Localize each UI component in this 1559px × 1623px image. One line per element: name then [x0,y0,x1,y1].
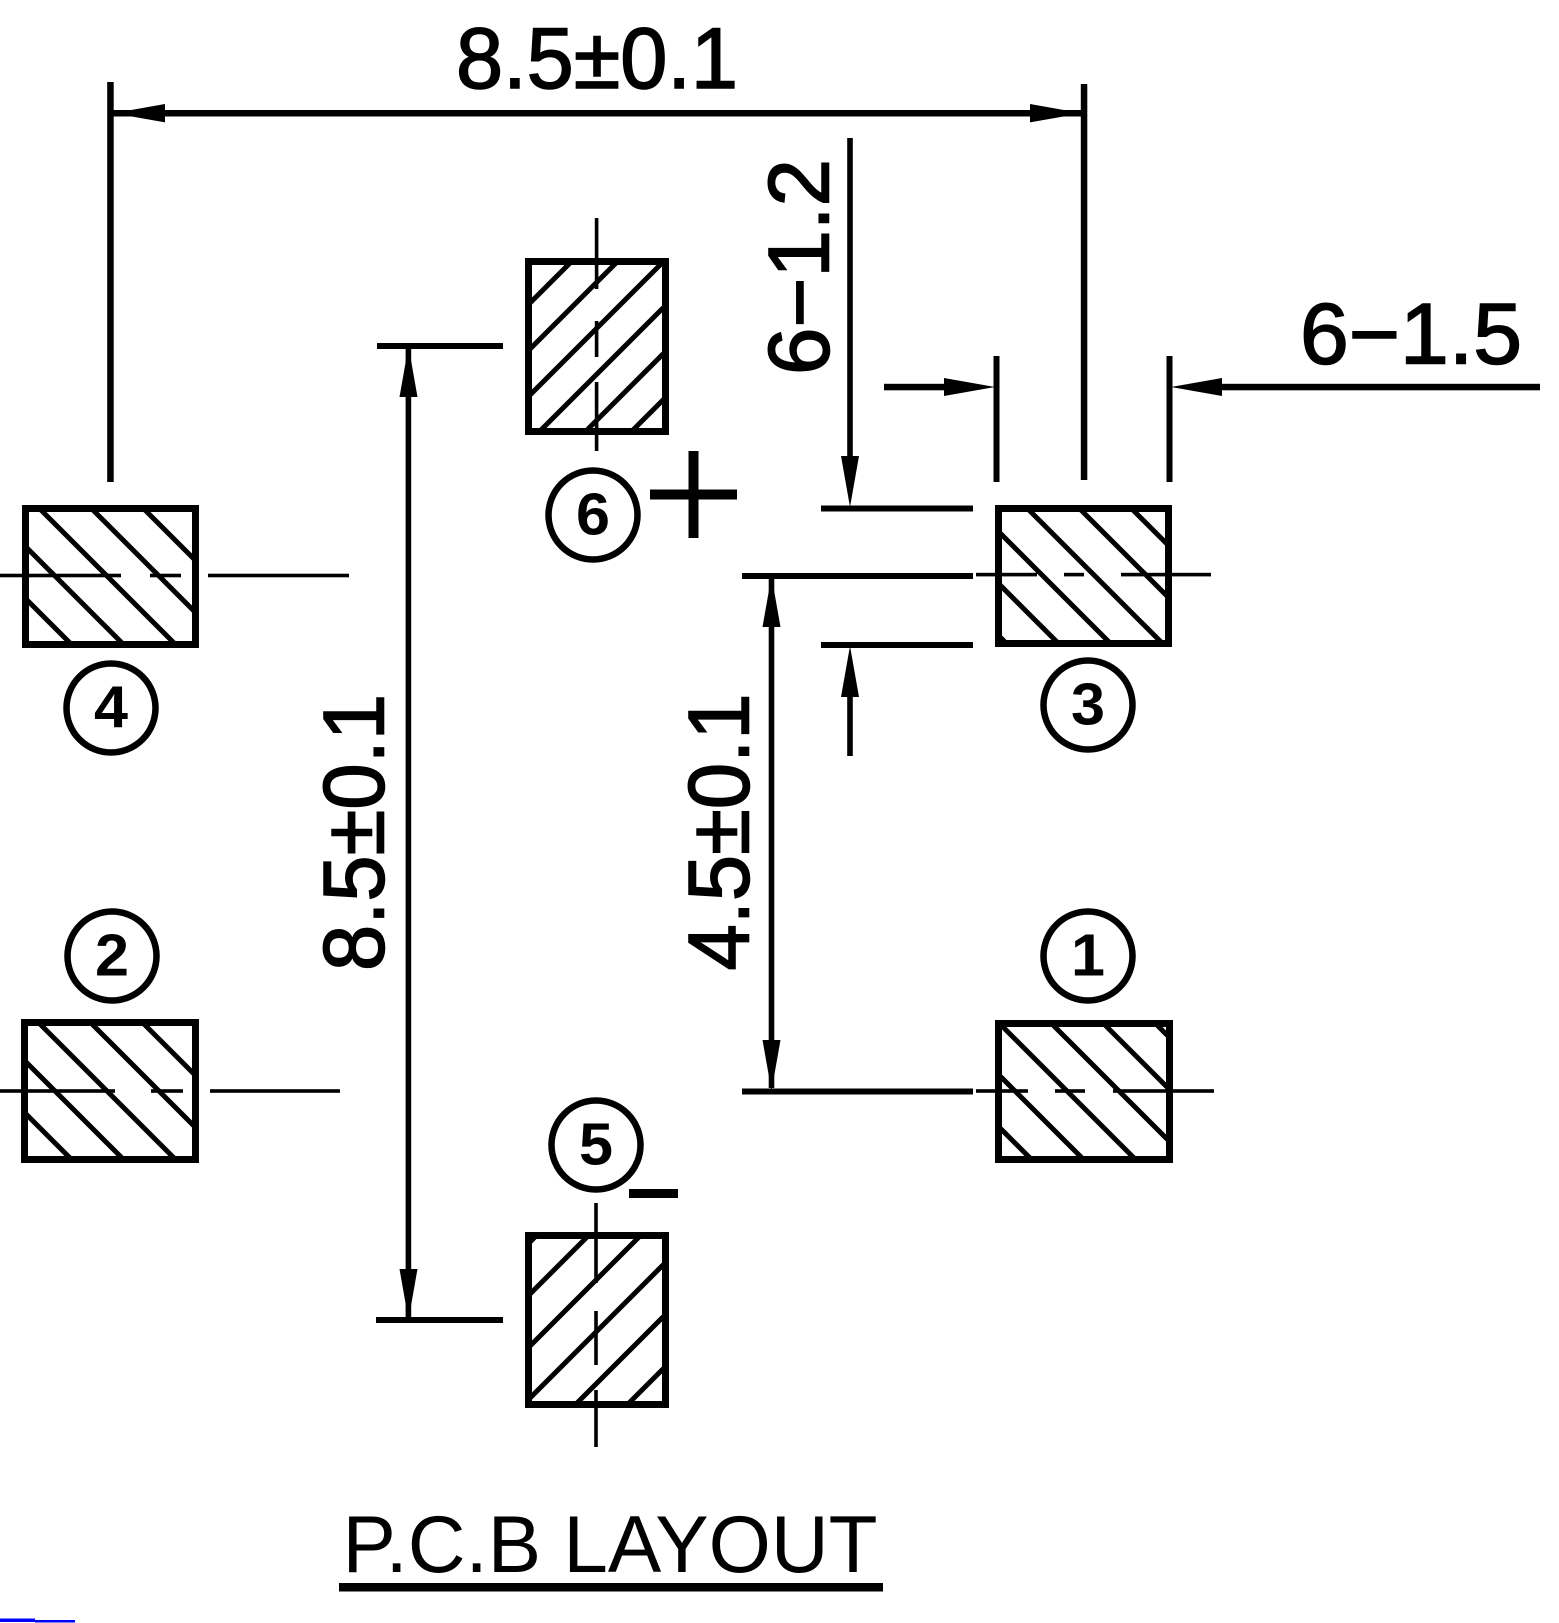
centerline pad 1 [976,1089,1214,1093]
balloon circle 3 [1044,661,1133,750]
centerline pad 4 [0,574,349,578]
pad 1 [999,1024,1170,1160]
svg-text:P.C.B LAYOUT: P.C.B LAYOUT [343,1500,878,1590]
balloon circle 5 [552,1101,641,1190]
extension line left (pad4 center) [107,82,114,482]
svg-text:6: 6 [576,482,610,548]
blue frame remnant thick [0,1619,35,1623]
extension line pad1 centerline [742,1089,973,1095]
polarity plus sign [650,451,737,538]
dimension line 8.5 vertical [400,346,418,1320]
dimension line 4.5 vertical [763,576,781,1091]
svg-text:8.5±0.1: 8.5±0.1 [307,694,403,971]
centerline pad 5 [594,1203,598,1447]
balloon circle 4 [67,664,156,753]
balloon circle 2 [68,912,157,1001]
svg-text:8.5±0.1: 8.5±0.1 [456,11,738,107]
balloon circle 1 [1044,912,1133,1001]
extension line pad3 centerline [742,573,973,579]
balloon circle 6 [549,471,638,560]
extension tick pad5 center [376,1317,503,1323]
extension tick pad3 right edge [1167,356,1173,482]
blue frame remnant thin [35,1620,75,1623]
dimension line 6-1.2 lower arrow (up) [841,646,859,756]
pad 6 [529,262,666,432]
svg-text:1: 1 [1071,923,1105,989]
svg-text:3: 3 [1071,672,1105,738]
pad 5 [529,1236,666,1405]
extension tick pad6 center [377,343,503,349]
extension tick pad3 left edge [994,356,1000,482]
polarity minus sign [629,1189,678,1198]
svg-text:2: 2 [95,923,129,989]
dimension line 6-1.5 left arrow (right-pointing) [884,378,995,396]
centerline pad 6 [595,218,599,451]
svg-text:4: 4 [94,675,128,741]
svg-text:6−1.5: 6−1.5 [1300,287,1522,383]
svg-text:5: 5 [579,1112,613,1178]
pad 2 [25,1023,196,1160]
centerline pad 3 [976,573,1211,577]
pad 3 [999,509,1169,644]
svg-text:4.5±0.1: 4.5±0.1 [672,694,768,971]
caption underline [339,1583,883,1592]
extension line pad3 bottom [821,642,973,648]
dimension line 8.5 horizontal top [113,104,1082,122]
centerline pad 2 [0,1089,340,1093]
dimension line 6-1.2 upper arrow (down) [841,138,859,507]
svg-text:6−1.2: 6−1.2 [752,159,848,375]
pad 4 [26,509,196,645]
extension line pad3 top [821,506,973,512]
dimension line 6-1.5 right arrow (left-pointing) [1171,378,1540,396]
extension line right (pad3 center) [1081,84,1088,480]
